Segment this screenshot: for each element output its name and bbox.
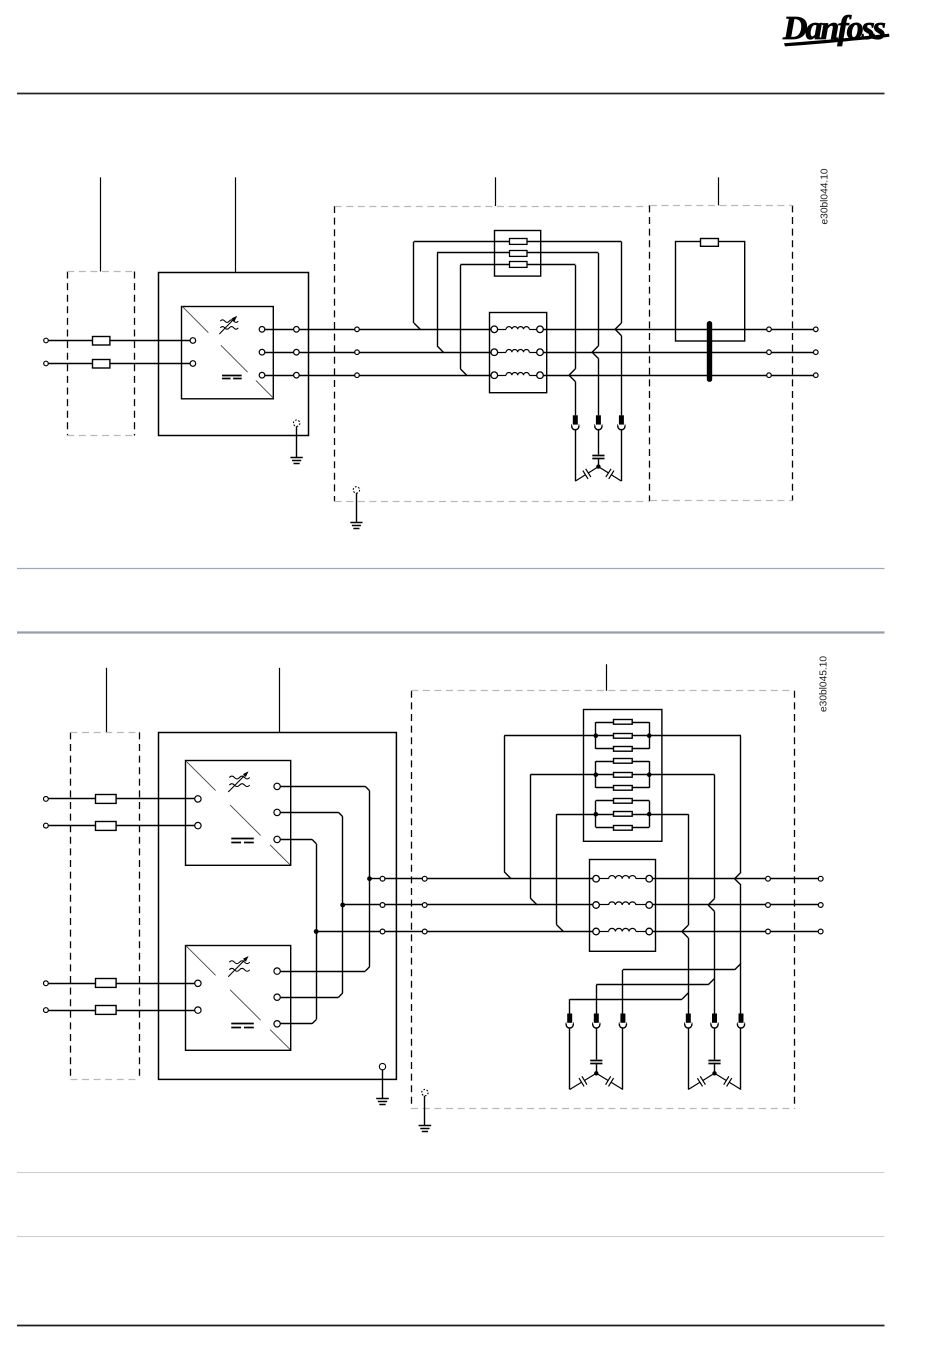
drive enclosure box bbox=[159, 273, 309, 436]
wire phase 2 segment 4 bbox=[771, 352, 813, 354]
callout leader 3 (filter) bbox=[495, 177, 497, 206]
svg-text:e30bl045.10: e30bl045.10 bbox=[819, 656, 830, 712]
svg-text:e30bl044.10: e30bl044.10 bbox=[820, 168, 831, 224]
fuse F5 bbox=[96, 822, 117, 831]
wire U2 output 3 link bbox=[281, 839, 312, 841]
converter box U2 bbox=[186, 761, 291, 866]
wire R1 right lead bbox=[527, 241, 622, 243]
node 12p phase 2 check point B bbox=[422, 903, 427, 908]
wire U1 output 3 to enclosure terminal bbox=[265, 375, 294, 377]
wire 12p phase 2 segment 3 bbox=[427, 904, 593, 906]
wire phase 3 segment 3 bbox=[543, 375, 766, 377]
wire phase 1 segment 1 bbox=[299, 329, 355, 331]
wire U2 output 2 link bbox=[281, 812, 339, 814]
wire phase 2 segment 2 bbox=[359, 352, 491, 354]
node bank group 3 right bbox=[647, 812, 652, 817]
contactor enclosure (dashed box) bbox=[792, 205, 794, 501]
callout leader 2 (drive) bbox=[235, 177, 237, 272]
node bank group 1 right bbox=[647, 733, 652, 738]
node phase 1 check point B bbox=[767, 327, 772, 332]
section divider 3 bbox=[17, 1172, 885, 1174]
inductor L5 bbox=[593, 902, 600, 909]
terminal U2 output 2 bbox=[274, 809, 280, 815]
wire R3 left lead bbox=[460, 264, 509, 266]
node phase 2 check point A bbox=[355, 350, 360, 355]
DC symbol of U1 bbox=[222, 375, 242, 377]
capacitor Y-cap centre bbox=[590, 1060, 602, 1062]
wire U2 output 1 link bbox=[281, 786, 366, 788]
wire 12p input 1 bbox=[48, 798, 194, 800]
wire bank group 3 parallel loop bbox=[595, 801, 597, 828]
inductor box L4-L6 bbox=[590, 860, 656, 952]
wire 12p phase 2 segment 4 bbox=[653, 904, 766, 906]
capacitor Y-cap left diagonal bbox=[688, 1082, 700, 1089]
varistor RV1 bbox=[572, 423, 579, 430]
contactor unit box bbox=[676, 242, 745, 342]
resistor R2c (bank group 2) bbox=[614, 786, 633, 791]
wire L1 input bbox=[48, 340, 190, 342]
wire dropper from R2 bbox=[598, 253, 600, 346]
current sensor bar bbox=[707, 324, 712, 380]
varistor RV4 bbox=[566, 1021, 573, 1028]
section divider 2 bbox=[17, 631, 885, 633]
soft-charge resistor bank box bbox=[584, 710, 662, 842]
wire Y-cap right leg bbox=[740, 1028, 742, 1090]
terminal U1 output 2 bbox=[259, 349, 265, 355]
AC symbol of U2 bbox=[229, 776, 249, 779]
node bank group 2 right bbox=[647, 772, 652, 777]
wire cap to star point bbox=[596, 1064, 598, 1073]
wire 12p phase 3 segment 2 bbox=[385, 931, 422, 933]
wire phase 3 segment 1 bbox=[299, 375, 355, 377]
wire riser to R2 bbox=[437, 253, 439, 346]
terminal U3 output 3 bbox=[274, 1021, 280, 1027]
wire phase 2 segment 1 bbox=[299, 352, 355, 354]
resistor R2 (soft charge) bbox=[510, 251, 528, 257]
callout leader 7 (filter 12p) bbox=[606, 664, 608, 691]
12-pulse drive enclosure box bbox=[159, 733, 397, 1080]
diagonal divider of U3 bbox=[186, 946, 216, 976]
wire branch to left RFI group phase 2 bbox=[708, 979, 714, 985]
fuse F4 bbox=[96, 795, 117, 804]
terminal U2 input 1 bbox=[195, 796, 201, 802]
inductor L4 bbox=[593, 875, 600, 882]
terminal 12p phase 1 output bbox=[818, 876, 823, 881]
terminal U1 input 2 bbox=[190, 361, 196, 367]
varistor RV8 bbox=[711, 1021, 718, 1028]
node 12p phase 2 check point C bbox=[766, 903, 771, 908]
resistor R2b (bank group 2) bbox=[614, 773, 633, 778]
callout leader 4 (contactor unit) bbox=[718, 177, 720, 205]
resistor R3c (bank group 3) bbox=[614, 826, 633, 831]
node bank group 2 left bbox=[594, 772, 599, 777]
terminal phase 3 output bbox=[814, 373, 819, 378]
wire dropper from R3 bbox=[575, 265, 577, 369]
AC symbol of U3 bbox=[229, 961, 249, 964]
fuse F2 bbox=[93, 360, 110, 369]
node phase 3 check point A bbox=[355, 373, 360, 378]
terminal 12p phase 3 output bbox=[818, 929, 823, 934]
wire 12p phase 1 segment 1 bbox=[372, 878, 381, 880]
terminal phase 1 output bbox=[814, 327, 819, 332]
wire U1 output 1 to enclosure terminal bbox=[265, 329, 294, 331]
node star point bbox=[594, 1071, 598, 1075]
wire phase 2 segment 3 bbox=[543, 352, 766, 354]
terminal U3 input 1 bbox=[195, 980, 201, 986]
varistor RV3 bbox=[618, 423, 625, 430]
wire U1 output 2 to enclosure terminal bbox=[265, 352, 294, 354]
wire 12p phase 2 segment 2 bbox=[385, 904, 422, 906]
wire 12p phase 1 segment 2 bbox=[385, 878, 422, 880]
diagonal divider of U2 bbox=[186, 761, 216, 791]
DC symbol of U3 bbox=[231, 1023, 254, 1025]
node star point bbox=[712, 1071, 716, 1075]
capacitor Y-cap right diagonal bbox=[611, 475, 621, 481]
ground drive PE bbox=[290, 457, 302, 459]
wire 12p input 3 bbox=[48, 983, 194, 985]
node 12p phase 1 check point B bbox=[422, 876, 427, 881]
wire U3 output 3 link bbox=[281, 1023, 312, 1025]
resistor R1c (bank group 1) bbox=[614, 747, 633, 752]
wire R3 right lead bbox=[527, 264, 575, 266]
varistor RV6 bbox=[619, 1021, 626, 1028]
node bank group 3 left bbox=[594, 812, 599, 817]
terminal U3 input 2 bbox=[195, 1007, 201, 1013]
node 12p phase 2 check point A bbox=[380, 903, 385, 908]
wire bank group 3 right feed bbox=[649, 814, 688, 816]
wire Y-cap centre leg bbox=[596, 1028, 598, 1060]
wire bank group 3 left feed bbox=[557, 814, 596, 816]
wire 12p filter PE bbox=[424, 1096, 426, 1125]
node bank group 1 left bbox=[594, 733, 599, 738]
node phase 2 check point B bbox=[767, 350, 772, 355]
wire cap to star point bbox=[598, 459, 600, 467]
resistor R1a (bank group 1) bbox=[614, 720, 633, 725]
fuse F7 bbox=[96, 1006, 117, 1015]
terminal filter PE (dashed circle) bbox=[353, 487, 359, 493]
node star point bbox=[596, 464, 600, 468]
header rule bbox=[17, 93, 885, 95]
inductor L6 bbox=[593, 928, 600, 935]
node phase 1 check point A bbox=[355, 327, 360, 332]
wire Y-cap centre leg bbox=[598, 429, 600, 455]
terminal 12p input 2 bbox=[44, 823, 49, 828]
terminal U3 output 2 bbox=[274, 994, 280, 1000]
terminal U2 input 2 bbox=[195, 822, 201, 828]
wire U3 output 1 link bbox=[281, 971, 366, 973]
wire 12p phase 1 segment 4 bbox=[653, 878, 766, 880]
wire 12p phase 1 segment 5 bbox=[770, 878, 818, 880]
terminal 12p input 3 bbox=[44, 981, 49, 986]
resistor R2a (bank group 2) bbox=[614, 759, 633, 764]
resistor R1 (soft charge) bbox=[510, 239, 528, 245]
AC symbol of U1 bbox=[220, 320, 238, 323]
wire riser to R3 bbox=[460, 265, 462, 369]
wire bank group 1 right feed bbox=[649, 735, 741, 737]
wire Y-cap left leg bbox=[688, 1028, 690, 1090]
wire phase 3 segment 2 bbox=[359, 375, 491, 377]
resistor R1b (bank group 1) bbox=[614, 734, 633, 739]
converter box U1 bbox=[182, 307, 274, 399]
wire phase 3 segment 4 bbox=[771, 375, 813, 377]
wire Y-cap left leg bbox=[569, 1028, 571, 1090]
wire Y-cap centre leg bbox=[714, 1028, 716, 1060]
varistor RV7 bbox=[685, 1021, 692, 1028]
section divider 4 bbox=[17, 1236, 885, 1238]
inductor L2 bbox=[491, 349, 498, 356]
soft-charge resistor box bbox=[495, 231, 541, 277]
node 12p phase 1 check point C bbox=[766, 876, 771, 881]
varistor RV9 bbox=[737, 1021, 744, 1028]
node 12p phase 3 check point A bbox=[380, 929, 385, 934]
resistor R3b (bank group 3) bbox=[614, 812, 633, 817]
capacitor Y-cap left diagonal bbox=[570, 1082, 582, 1089]
wire R1 left lead bbox=[414, 241, 510, 243]
wire Y-cap right leg bbox=[621, 429, 623, 481]
terminal L1 input bbox=[44, 338, 49, 343]
terminal drive PE (dashed circle) bbox=[293, 420, 299, 426]
node 12p phase 1 check point A bbox=[380, 876, 385, 881]
capacitor Y-cap right diagonal bbox=[611, 1082, 623, 1089]
wire 12p input 2 bbox=[48, 825, 194, 827]
resistor R3a (bank group 3) bbox=[614, 799, 633, 804]
wire dropper from R1 bbox=[621, 242, 623, 323]
callout leader 5 (mains fuses 12p) bbox=[106, 668, 108, 733]
wire 12p drive PE bbox=[382, 1070, 384, 1098]
callout leader 1 (mains fuses) bbox=[100, 177, 102, 271]
fuse F6 bbox=[96, 979, 117, 988]
wire filter PE bbox=[356, 493, 358, 522]
wire Y-cap left leg bbox=[575, 429, 577, 481]
terminal 12p input 1 bbox=[44, 797, 49, 802]
wire bank group 2 right feed bbox=[649, 774, 714, 776]
terminal U2 output 1 bbox=[274, 783, 280, 789]
filter enclosure (dashed box) bbox=[334, 206, 336, 501]
terminal 12p drive PE bbox=[379, 1063, 385, 1069]
wire 12p phase 3 segment 4 bbox=[653, 931, 766, 933]
terminal U1 output 1 bbox=[259, 327, 265, 333]
mains fuse enclosure (dashed box) bbox=[67, 272, 69, 436]
resistor R3 (soft charge) bbox=[510, 262, 528, 268]
terminal drive output 3 bbox=[294, 372, 300, 378]
section divider 1 bbox=[17, 568, 885, 570]
terminal drive output 1 bbox=[294, 327, 300, 333]
wire cap to star point bbox=[714, 1064, 716, 1073]
wire Y-cap right leg bbox=[622, 1028, 624, 1090]
wire 12p input 4 bbox=[48, 1010, 194, 1012]
capacitor Y-cap left diagonal bbox=[575, 475, 585, 481]
terminal L2 input bbox=[44, 361, 49, 366]
diagonal divider of U1 bbox=[182, 306, 208, 332]
node paralleling junction 3 bbox=[314, 929, 319, 934]
DC symbol of U2 bbox=[231, 838, 254, 840]
node paralleling junction 2 bbox=[340, 903, 345, 908]
terminal 12p input 4 bbox=[44, 1008, 49, 1013]
terminal phase 2 output bbox=[814, 350, 819, 355]
terminal 12p phase 2 output bbox=[818, 903, 823, 908]
wire bank group 1 parallel loop bbox=[595, 722, 597, 749]
Danfoss logo bbox=[782, 10, 890, 47]
wire U3 output 2 link bbox=[281, 997, 339, 999]
terminal U1 input 1 bbox=[190, 338, 196, 344]
wire 12p phase 3 segment 3 bbox=[427, 931, 593, 933]
ground filter PE bbox=[350, 522, 362, 524]
node 12p phase 3 check point C bbox=[766, 929, 771, 934]
terminal U2 output 3 bbox=[274, 836, 280, 842]
terminal 12p filter PE (dashed circle) bbox=[422, 1089, 428, 1095]
wire L2 input bbox=[48, 363, 190, 365]
wire 12p phase 3 segment 5 bbox=[770, 931, 818, 933]
ground 12p filter PE bbox=[419, 1125, 432, 1127]
wire 12p phase 2 segment 1 bbox=[345, 904, 380, 906]
fuse F3 (contactor unit) bbox=[701, 239, 719, 247]
terminal drive output 2 bbox=[294, 349, 300, 355]
fuse F1 bbox=[93, 337, 110, 346]
wire bank group 2 parallel loop bbox=[595, 761, 597, 788]
footer rule bbox=[17, 1325, 885, 1327]
inductor L3 bbox=[491, 372, 498, 379]
wire phase 1 segment 2 bbox=[359, 329, 491, 331]
terminal U1 output 3 bbox=[259, 372, 265, 378]
converter box U3 bbox=[186, 946, 291, 1051]
wire R2 right lead bbox=[527, 252, 599, 254]
varistor RV2 bbox=[595, 423, 602, 430]
wire phase 1 segment 3 bbox=[543, 329, 766, 331]
wire riser to R1 bbox=[413, 242, 415, 323]
mains fuse enclosure 12p (dashed box) bbox=[70, 732, 72, 1080]
inductor box L1-L3 bbox=[490, 313, 547, 393]
wire R2 left lead bbox=[437, 252, 509, 254]
node phase 3 check point B bbox=[767, 373, 772, 378]
capacitor Y-cap centre bbox=[592, 455, 604, 457]
wire phase 1 segment 4 bbox=[771, 329, 813, 331]
wire branch to left RFI group phase 3 bbox=[682, 993, 688, 999]
capacitor Y-cap right diagonal bbox=[729, 1082, 741, 1089]
filter enclosure 12p (dashed box) bbox=[411, 691, 413, 1109]
wire 12p phase 1 segment 3 bbox=[427, 878, 593, 880]
node 12p phase 3 check point B bbox=[422, 929, 427, 934]
ground 12p drive PE bbox=[376, 1098, 389, 1100]
wire bank group 1 left feed bbox=[504, 735, 596, 737]
wire 12p phase 2 segment 5 bbox=[770, 904, 818, 906]
callout leader 6 (12-pulse drive) bbox=[279, 668, 281, 733]
capacitor Y-cap centre bbox=[708, 1060, 720, 1062]
inductor L1 bbox=[491, 326, 498, 333]
wire branch to left RFI group phase 1 bbox=[735, 963, 741, 969]
wire 12p phase 3 segment 1 bbox=[318, 931, 380, 933]
terminal U3 output 1 bbox=[274, 968, 280, 974]
wire bank group 2 left feed bbox=[530, 774, 596, 776]
varistor RV5 bbox=[593, 1021, 600, 1028]
node paralleling junction 1 bbox=[367, 876, 372, 881]
wire drive PE bbox=[296, 426, 298, 457]
